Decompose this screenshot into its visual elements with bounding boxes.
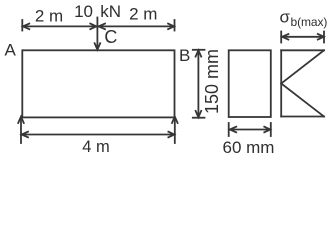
svg-text:60 mm: 60 mm <box>223 138 275 156</box>
sigma dim line <box>281 36 323 38</box>
svg-text:C: C <box>104 27 117 47</box>
sigma arrow right <box>318 34 324 40</box>
reaction arrowhead up at B <box>172 117 178 123</box>
svg-text:4 m: 4 m <box>82 138 110 156</box>
arrow left (4 m) <box>22 132 28 138</box>
reaction arrowhead up at A <box>18 117 24 123</box>
150mm bottom tick <box>193 117 205 119</box>
reaction shaft at A <box>20 118 22 143</box>
stress top edge <box>281 49 324 51</box>
stress diagram vertical axis <box>280 50 282 116</box>
beam AB rectangle <box>22 50 174 117</box>
arrow right at B (top dim) <box>168 24 174 30</box>
sigma dim right tick <box>323 32 325 43</box>
150mm top tick <box>193 49 205 51</box>
150mm arrow down <box>196 111 202 117</box>
dim line C-B <box>98 25 174 27</box>
stress lower diagonal <box>281 84 324 117</box>
150mm dim line <box>197 50 199 117</box>
60mm arrow left <box>230 127 236 133</box>
arrow right at C (left span) <box>90 24 96 30</box>
load arrowhead down at C <box>95 43 101 49</box>
60mm arrow right <box>264 127 270 133</box>
arrow left at C (right span) <box>99 24 105 30</box>
svg-text:kN: kN <box>100 2 121 21</box>
60mm dim line <box>229 129 270 131</box>
stress bottom edge <box>281 116 324 118</box>
svg-text:B: B <box>179 46 190 65</box>
60mm right tick <box>270 123 272 136</box>
arrow left at A (top dim) <box>23 24 29 30</box>
svg-text:150 mm: 150 mm <box>202 49 222 114</box>
right extension tick (top dim) <box>174 20 176 31</box>
svg-text:σ: σ <box>280 8 291 27</box>
left extension tick (top dim) <box>21 20 23 31</box>
svg-text:2 m: 2 m <box>35 7 63 26</box>
svg-text:2 m: 2 m <box>129 5 157 24</box>
cross-section rectangle <box>229 50 271 117</box>
sigma arrow left <box>282 34 288 40</box>
svg-text:A: A <box>5 41 17 60</box>
stress upper diagonal <box>281 50 324 83</box>
svg-text:b(max): b(max) <box>291 15 328 29</box>
arrow right (4 m) <box>168 132 174 138</box>
load line 10kN <box>96 18 98 50</box>
sigma dim left tick <box>280 32 282 43</box>
150mm arrow up <box>196 50 202 56</box>
dim line 4 m <box>21 134 175 136</box>
svg-text:10: 10 <box>74 2 93 21</box>
reaction shaft at B <box>174 118 176 143</box>
60mm left tick <box>228 123 230 136</box>
dim line A-C <box>22 25 96 27</box>
